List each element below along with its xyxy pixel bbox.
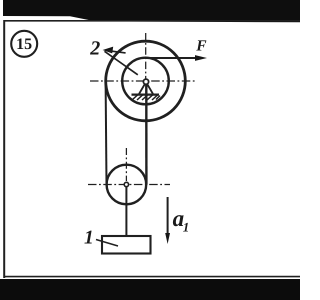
svg-text:1: 1 — [183, 220, 190, 235]
top black scan bar — [3, 0, 300, 22]
movable pulley horizontal centerline — [88, 184, 170, 186]
horizontal centerline of pulley 2 — [90, 80, 197, 82]
leader line to outer rim — [109, 51, 126, 53]
frame left line — [3, 20, 5, 278]
svg-text:1: 1 — [84, 228, 94, 249]
acceleration a1 arrow — [165, 197, 170, 244]
pin circle — [143, 79, 148, 84]
movable pulley circle — [107, 165, 147, 205]
support hatching — [132, 95, 160, 100]
vertical centerline of pulley 2 — [145, 33, 147, 79]
rope from movable pulley to block — [125, 185, 127, 238]
movable pulley pin — [124, 182, 128, 186]
leader line of label 1 — [96, 240, 118, 247]
rope right (movable pulley to axle) — [145, 84, 147, 185]
rope left (outer step to movable pulley) — [105, 81, 108, 185]
problem number circle 15 — [11, 31, 37, 57]
svg-text:2: 2 — [89, 38, 100, 60]
force F arrow — [146, 55, 207, 61]
svg-text:F: F — [195, 37, 207, 54]
leader line to inner rim — [105, 51, 138, 75]
bottom black scan bar — [0, 279, 300, 300]
block 1 — [102, 236, 151, 254]
support ground line — [132, 93, 160, 95]
movable pulley vertical centerline — [125, 148, 127, 181]
pin support legs — [139, 82, 153, 94]
pulley 2 outer circle — [106, 41, 186, 121]
frame bottom line — [4, 276, 300, 278]
pulley 2 inner circle — [122, 58, 169, 105]
leader arrowhead at label 2 — [103, 47, 114, 54]
frame top line — [4, 20, 300, 22]
svg-text:15: 15 — [16, 36, 32, 53]
